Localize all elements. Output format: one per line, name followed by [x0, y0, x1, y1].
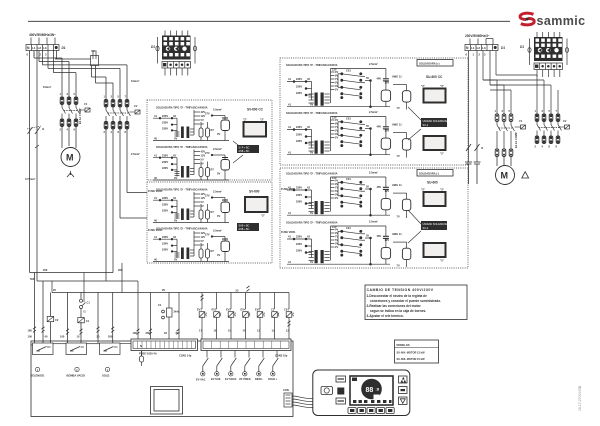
- valve EV3: [228, 312, 235, 318]
- svg-text:EV VAC: EV VAC: [196, 378, 206, 382]
- top border line: [28, 20, 510, 22]
- table SAB/BC: [237, 145, 259, 153]
- contactor C1 contacts (left): [60, 92, 80, 132]
- table SAB/BC 2: [237, 223, 259, 231]
- svg-text:200: 200: [118, 268, 123, 272]
- svg-text:C2: C2: [563, 119, 567, 123]
- svg-text:100: 100: [60, 335, 65, 339]
- display unit 1 (SU-600 CC): [424, 89, 446, 103]
- svg-text:FUSE VIDR.: FUSE VIDR.: [148, 228, 163, 232]
- transformer circuit T3 (SV-600): [153, 188, 230, 223]
- transformer circuit T6 (SU-600 CC): [286, 110, 411, 158]
- svg-text:M: M: [66, 153, 74, 163]
- svg-text:2.5mm²: 2.5mm²: [131, 152, 140, 156]
- right buttons column: [399, 376, 408, 383]
- svg-text:EV3: EV3: [226, 307, 231, 311]
- I1 caps at bottom: [465, 144, 481, 184]
- svg-text:SU-2: SU-2: [423, 124, 429, 127]
- svg-text:C01: C01: [284, 307, 289, 311]
- svg-text:FUSE VIDR.: FUSE VIDR.: [281, 230, 296, 234]
- svg-text:segun se indica en la caja de: segun se indica en la caja de bornes.: [370, 309, 426, 313]
- svg-text:D1: D1: [501, 46, 505, 50]
- svg-text:100: 100: [28, 335, 33, 339]
- C1/C2 bottom components + relay feed wires: [35, 273, 113, 344]
- PCB board outline: [31, 341, 293, 417]
- terminal strip CON1 14p: [131, 339, 198, 351]
- svg-text:C2: C2: [55, 318, 59, 322]
- svg-text:SOLDADURA (-): SOLDADURA (-): [419, 172, 439, 176]
- valve EV1: [199, 312, 206, 318]
- svg-text:UNIDAD SOLDADURA: UNIDAD SOLDADURA: [423, 223, 449, 226]
- svg-text:EV2: EV2: [212, 307, 217, 311]
- display screen: [350, 376, 393, 405]
- svg-text:10mm²: 10mm²: [43, 85, 51, 89]
- transformer circuit T1 (SV-600 CC): [153, 106, 230, 141]
- wires to motor: [62, 127, 76, 149]
- header boxes: [408, 60, 453, 156]
- svg-text:200: 200: [43, 268, 48, 272]
- svg-text:E1 4A COMP: E1 4A COMP: [514, 132, 518, 148]
- contactor C2 contacts (left): [104, 95, 131, 135]
- svg-text:E1 4A COMP: E1 4A COMP: [78, 108, 82, 124]
- svg-text:SU-2: SU-2: [423, 227, 429, 230]
- header box SOLDADURA (-): [417, 170, 453, 177]
- svg-text:160: 160: [28, 329, 33, 333]
- svg-text:EV4: EV4: [241, 307, 246, 311]
- svg-text:SOLD.: SOLD.: [102, 374, 110, 378]
- svg-text:UNIDAD SOLDADURA: UNIDAD SOLDADURA: [423, 120, 449, 123]
- svg-text:EV SUE: EV SUE: [211, 377, 221, 381]
- svg-text:SU-604. MOTOR 13 kW: SU-604. MOTOR 13 kW: [397, 350, 426, 354]
- svg-text:sammic: sammic: [537, 14, 586, 28]
- bottom button row: [348, 408, 394, 414]
- svg-text:DESC.: DESC.: [255, 377, 263, 381]
- svg-text:D1: D1: [520, 45, 524, 49]
- svg-text:2k4a: 2k4a: [174, 310, 180, 314]
- svg-text:1-Desconectar el neutro de la: 1-Desconectar el neutro de la regleta de: [367, 294, 428, 298]
- svg-text:BOMBA VACIO: BOMBA VACIO: [67, 374, 85, 378]
- motor M (left, star): [61, 148, 80, 167]
- svg-text:SELENOID.: SELENOID.: [31, 374, 45, 378]
- svg-text:SV-600 CC: SV-600 CC: [247, 108, 264, 112]
- svg-text:C1: C1: [87, 301, 91, 305]
- svg-text:C1: C1: [519, 119, 523, 123]
- transformer circuit T5 (SU-600 CC): [286, 62, 411, 110]
- svg-text:C1: C1: [158, 303, 162, 307]
- svg-text:88: 88: [366, 387, 374, 394]
- svg-text:SU-600: SU-600: [427, 181, 438, 185]
- drops to C2: [105, 77, 107, 100]
- valve EV5: [257, 312, 264, 318]
- display unit 2 (SU-600): [424, 243, 446, 257]
- svg-text:ASB + BC: ASB + BC: [239, 228, 250, 231]
- drops to C1: [75, 73, 77, 97]
- svg-text:SU-600 CC: SU-600 CC: [426, 75, 443, 79]
- box SOLDADURA(+) SU-600 CC / box SOLDADURA(-) SU-600 (dashed): [280, 58, 468, 165]
- svg-text:SOLDADURA (+): SOLDADURA (+): [419, 62, 440, 66]
- coil C1 (aux): [78, 318, 85, 323]
- svg-text:1L: 1L: [272, 329, 275, 333]
- control panel outline: [313, 370, 410, 416]
- display unit 2 (SU-600 CC): [424, 136, 446, 150]
- svg-text:M: M: [501, 171, 509, 181]
- terminal strip CON2 10p: [201, 339, 291, 351]
- valve EV4: [243, 312, 250, 318]
- svg-text:CAMBIO DE TENSION 400V/230V: CAMBIO DE TENSION 400V/230V: [367, 288, 434, 292]
- transformer circuit T7 (SU-600): [286, 170, 411, 218]
- coil C3: [272, 312, 279, 318]
- valve EV2: [214, 312, 221, 318]
- svg-text:3-Ajustar el rele termico.: 3-Ajustar el rele termico.: [367, 314, 404, 318]
- EV row: [202, 293, 289, 310]
- svg-text:D1: D1: [151, 45, 155, 49]
- coil C2 (aux): [47, 316, 54, 321]
- barbs: [33, 286, 291, 335]
- header box SOLDADURA (+): [417, 60, 453, 67]
- box SV-600 CC (dashed) / box SV-600 below: [147, 100, 272, 180]
- display unit (SV-600 CC): [244, 122, 267, 137]
- svg-text:200: 200: [108, 335, 113, 339]
- ribbon to panel: [292, 396, 313, 408]
- relay boxes: [33, 343, 121, 355]
- svg-text:SOLD +: SOLD +: [268, 377, 278, 381]
- svg-text:EV SOLD: EV SOLD: [225, 377, 237, 381]
- contactor C2 contacts (right): [535, 109, 562, 149]
- svg-text:C1: C1: [84, 102, 88, 106]
- display unit 1 (SU-600): [424, 192, 446, 206]
- transformer circuit T8 (SU-600): [286, 219, 411, 267]
- box UNIDAD SOLDADURA SU-2: [421, 118, 449, 127]
- transformer module on PCB: [151, 387, 183, 415]
- diagonal outputs from CON2: [203, 351, 278, 372]
- terminal block D1 (right): [465, 45, 498, 51]
- right contactor C1: [495, 109, 511, 113]
- svg-text:conexiones y conectar el puent: conexiones y conectar el puente suminist…: [370, 299, 441, 303]
- transformer circuit T2 (SV-600 CC): [153, 145, 230, 180]
- svg-text:10mm²: 10mm²: [131, 79, 139, 83]
- svg-text:230V/50/60Hz/3~: 230V/50/60Hz/3~: [465, 34, 490, 38]
- delta symbol: [522, 172, 529, 178]
- svg-text:SV-600: SV-600: [249, 190, 260, 194]
- sammic logo: [520, 13, 585, 28]
- box UNIDAD SOLDADURA SU-2 (2): [421, 221, 449, 230]
- power button: [321, 387, 333, 395]
- svg-text:CON: CON: [283, 388, 289, 392]
- coil C01: [286, 312, 293, 318]
- motor M (right, delta): [496, 166, 515, 185]
- svg-text:MODELOS: MODELOS: [397, 343, 410, 347]
- svg-text:ASB + BC: ASB + BC: [239, 150, 250, 153]
- svg-text:2-Realizar las conexiones del: 2-Realizar las conexiones del motor: [367, 304, 422, 308]
- icon buttons column: [336, 376, 346, 382]
- svg-text:FUSE VIDR.: FUSE VIDR.: [281, 187, 296, 191]
- right wires: [469, 51, 559, 163]
- C2 wires down: [106, 129, 147, 281]
- svg-text:EV5: EV5: [255, 307, 260, 311]
- svg-text:EV1: EV1: [197, 307, 202, 311]
- svg-text:AT. PRES.: AT. PRES.: [239, 377, 251, 381]
- small pot near middle: [162, 308, 172, 319]
- svg-text:D1: D1: [62, 46, 66, 50]
- svg-text:260: 260: [146, 331, 151, 335]
- display unit (SV-600): [245, 197, 268, 212]
- terminal block D1 (left): [26, 45, 59, 51]
- svg-text:N: N: [140, 344, 142, 348]
- svg-text:16-17-2700005B: 16-17-2700005B: [578, 385, 582, 411]
- svg-text:160: 160: [133, 331, 138, 335]
- svg-text:C2: C2: [134, 104, 138, 108]
- transformer circuit T4 (SV-600): [153, 227, 230, 262]
- svg-text:FUSE VIDR.: FUSE VIDR.: [148, 189, 163, 193]
- svg-text:C3: C3: [271, 307, 275, 311]
- svg-text:CON1 14p: CON1 14p: [179, 354, 192, 358]
- svg-text:0.75mm²: 0.75mm²: [25, 177, 36, 181]
- svg-text:C1: C1: [86, 319, 90, 323]
- svg-text:400V/50/60Hz/3N~: 400V/50/60Hz/3N~: [29, 33, 56, 37]
- svg-text:SU-606. MOTOR 15 kW: SU-606. MOTOR 15 kW: [397, 357, 426, 361]
- svg-text:F.R: F.R: [92, 49, 96, 53]
- supply wires going down / routing: [30, 51, 128, 282]
- I1 switch marks on left wires: [27, 126, 41, 134]
